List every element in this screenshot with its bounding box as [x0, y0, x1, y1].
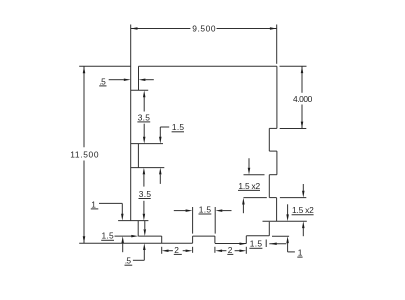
dim 9.500 arrow right: [270, 27, 277, 30]
right edge seg y5.5-7: [276, 151, 278, 175]
middle vertical edge + 9.5 ext line: [130, 25, 132, 221]
edge y=10 right (K) + ext: [263, 220, 307, 222]
notch1 top: [269, 127, 277, 129]
edge y=11 left: [138, 235, 162, 237]
edge y=6.5: [131, 167, 165, 169]
bump right wall: [214, 236, 216, 243]
dim 4.000 line upper: [301, 66, 303, 92]
dim 2b seg right: [235, 250, 240, 252]
dim 1R arrow up: [286, 236, 289, 243]
edge y=11 right: [246, 235, 269, 237]
dim 3.5a stem lower: [143, 124, 145, 137]
underline 1.5x2 right: [292, 214, 314, 216]
svg-text:9.500: 9.500: [192, 24, 216, 34]
dim 1R leader h: [288, 251, 295, 253]
svg-text:1: 1: [91, 199, 96, 209]
dim 3.5b stem lower: [143, 201, 145, 214]
dim 2a seg left: [168, 250, 173, 252]
leader 1 arrow: [121, 214, 124, 221]
dim 2b arrow left: [215, 249, 222, 252]
underline 1.5 br: [249, 247, 262, 249]
svg-text:1.5 x2: 1.5 x2: [292, 205, 314, 215]
dim .5b upper stem: [144, 221, 146, 229]
dim 11.500 arrow top: [83, 66, 86, 73]
edge y=10 left: [118, 220, 148, 222]
part top edge right: [139, 65, 277, 67]
dim 4.000 arrow top: [301, 66, 304, 73]
svg-text:1.5 x2: 1.5 x2: [238, 181, 260, 191]
dim 1.5e arrow up: [159, 168, 162, 175]
ext 2b right: [245, 247, 247, 254]
part top edge left + 11.5 ext: [79, 65, 131, 67]
svg-text:1.5: 1.5: [199, 204, 212, 214]
dim 1.5x2R lower stem: [302, 228, 304, 236]
bump top: [193, 235, 215, 237]
arrow up to L line: [121, 236, 124, 243]
dim 2a arrow right: [186, 249, 193, 252]
dim 11.500 line upper: [83, 66, 85, 147]
edge y=5: [131, 143, 163, 145]
svg-text:2: 2: [174, 245, 179, 255]
underline 1.5 e: [172, 131, 184, 133]
dim 3.5b arrow up: [143, 168, 146, 175]
dim 2b seg left: [222, 250, 226, 252]
notch1 inner wall: [268, 128, 270, 151]
dim 1.5x2R arrow down: [302, 191, 305, 198]
svg-text:4.000: 4.000: [293, 94, 313, 104]
step down x=5: [161, 236, 163, 243]
svg-text:.5: .5: [125, 256, 132, 266]
notch2 bottom: [269, 174, 277, 176]
svg-text:1: 1: [298, 248, 303, 258]
dim 3.5b stem upper: [143, 174, 145, 186]
dim 1.5bump stem left: [174, 210, 186, 212]
dim .5b arrow up: [143, 243, 146, 250]
edge y=8.5 right part: [269, 197, 276, 199]
dim 3.5a stem upper: [143, 97, 145, 112]
ext bump left: [192, 207, 194, 234]
dim 1R arrow down: [286, 214, 289, 221]
dim .5b lower stem: [143, 250, 145, 260]
svg-text:2: 2: [228, 245, 233, 255]
right edge seg y8.5-10: [276, 198, 278, 222]
dim 9.500 line right: [217, 28, 277, 30]
dim 2a seg right: [183, 250, 186, 252]
dim .5 stem left: [109, 79, 124, 81]
dim 11.500 line lower: [83, 161, 85, 244]
underline 1 left: [91, 208, 99, 210]
dim 4.000 ext bottom: [280, 128, 307, 130]
dim 1.5x2L arrow down: [248, 168, 251, 175]
dim .5 stem right: [145, 79, 154, 81]
dim 1.5br arrow right: [270, 243, 277, 246]
svg-text:3.5: 3.5: [138, 112, 151, 122]
slot shoulder: [131, 89, 148, 91]
ext y11 right: [272, 235, 289, 237]
dim .5 arrow right: [139, 78, 146, 81]
dim 1.5x2L upper stem: [248, 158, 250, 168]
floor 2: [215, 243, 246, 245]
dim .5b leader h: [133, 259, 144, 261]
dim 1.5e stem: [159, 127, 161, 137]
svg-text:.5: .5: [100, 76, 107, 86]
ext below bump right: [214, 247, 216, 253]
svg-text:3.5: 3.5: [139, 189, 152, 199]
bump left wall: [192, 236, 194, 243]
wall x=3.5 between y5-y6.5: [137, 144, 139, 168]
wall x=12 lower: [268, 222, 270, 236]
dim 4.000 ext top: [280, 65, 307, 67]
svg-text:1.5: 1.5: [250, 239, 263, 249]
dim .5 arrow left: [124, 78, 131, 81]
underline .5 top: [99, 85, 106, 87]
dim 1.5bump arrow right: [216, 209, 223, 212]
svg-text:1.5: 1.5: [102, 231, 115, 241]
underline 1.5x2 left: [238, 189, 260, 191]
notch1 bottom: [269, 150, 277, 152]
dim 1.5e bracket h: [160, 126, 169, 128]
dim 9.500 arrow left: [131, 27, 138, 30]
bottom right floor + dim tail: [269, 243, 286, 245]
dim 1.5x2R arrow up: [302, 221, 305, 228]
dim .5b arrow down: [144, 229, 147, 236]
underline 1.5 bump: [199, 213, 212, 215]
dim 1.5x2L arrow up: [242, 198, 245, 205]
dim 1R upper stem: [287, 204, 289, 214]
dim 4.000 line lower: [301, 105, 303, 129]
underline 2 a: [174, 253, 182, 255]
dim 1.5e arrow down: [159, 137, 162, 144]
underline 1 right: [297, 256, 302, 258]
dim 1.5x2R upper stem: [302, 184, 304, 191]
leader 1 h: [99, 202, 122, 204]
wall x=3.5 lower: [137, 221, 139, 237]
dim 1.5bump stem right: [222, 210, 231, 212]
dim 1R lower stem: [287, 243, 289, 252]
dim 1.5br arrow left: [240, 242, 247, 245]
underline 2 b: [227, 253, 233, 255]
underline 3.5 lower: [139, 198, 151, 200]
ext tick 1.5br: [265, 240, 267, 248]
dim 11.500 arrow bottom: [83, 236, 86, 243]
dim 1.5bump arrow left: [186, 209, 193, 212]
ext 2a left: [161, 247, 163, 254]
right edge top: [276, 66, 278, 128]
dim 2b arrow right: [240, 249, 247, 252]
ext y8.5 right: [280, 197, 306, 199]
dim 1.5e lower stem: [159, 174, 161, 184]
dim 3.5a arrow down: [143, 137, 146, 144]
dim 1.5L line: [115, 235, 132, 237]
svg-text:11.500: 11.500: [70, 149, 99, 159]
bottom edge left + notch floor: [79, 242, 192, 244]
dim 2a arrow left: [162, 249, 169, 252]
dim 9.500 line left: [131, 28, 191, 30]
dim 9.500 ext right: [276, 25, 278, 64]
ext below bump left: [192, 247, 194, 253]
slot right wall: [138, 66, 140, 90]
svg-text:1.5: 1.5: [172, 122, 185, 132]
underline 3.5 upper: [137, 121, 150, 123]
dim 4.000 arrow bottom: [301, 122, 304, 129]
dim 3.5b arrow down: [143, 214, 146, 221]
ext y=7 to left: [244, 174, 265, 176]
step up x=10.5: [245, 236, 247, 244]
underline 1.5 L: [101, 239, 114, 241]
leader 1 v: [121, 203, 123, 214]
underline .5 bottom: [125, 264, 133, 266]
dim 3.5a arrow up: [143, 90, 146, 97]
dim 1.5x2L lower stem: [242, 204, 244, 213]
ext bump right: [214, 207, 216, 234]
wall x=12 upper: [268, 175, 270, 198]
dim 1.5L arrow: [131, 235, 138, 238]
ext y=8.5 to left: [244, 197, 267, 199]
stem below L arrow: [122, 243, 124, 252]
